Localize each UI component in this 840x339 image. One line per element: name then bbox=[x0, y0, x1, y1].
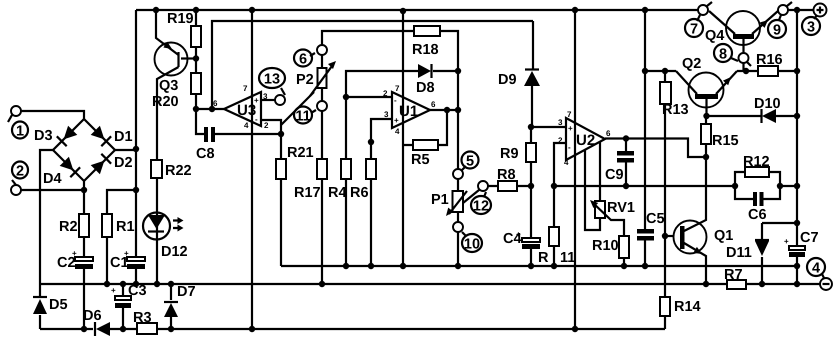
terminal 11 bbox=[317, 101, 327, 111]
wire: bottom negative bus y329 bbox=[40, 328, 665, 330]
svg-text:R19: R19 bbox=[167, 11, 194, 27]
wire: P1 bottom to common bus bbox=[457, 232, 459, 266]
wire: terminal2 to bridge bottom bbox=[21, 189, 84, 191]
resistor R5 bbox=[403, 110, 447, 145]
svg-text:R18: R18 bbox=[412, 42, 439, 58]
resistor R6 bbox=[370, 142, 372, 266]
svg-text:6: 6 bbox=[431, 100, 436, 109]
resistor R13 bbox=[664, 71, 666, 236]
wire: U3 output node bbox=[196, 108, 224, 110]
node: bridge + corner junction bbox=[133, 146, 139, 152]
svg-text:C8: C8 bbox=[196, 146, 215, 162]
svg-text:4: 4 bbox=[395, 127, 400, 136]
potentiometer P2 bbox=[321, 55, 323, 101]
svg-text:RV1: RV1 bbox=[607, 200, 635, 216]
resistor R4 bbox=[345, 97, 347, 266]
svg-text:4: 4 bbox=[244, 121, 249, 130]
wire: U3 pin2 feedback elbow bbox=[261, 120, 281, 134]
svg-text:+: + bbox=[568, 124, 573, 133]
svg-text:C6: C6 bbox=[748, 207, 767, 223]
terminal 10 bbox=[453, 222, 463, 232]
svg-text:R14: R14 bbox=[674, 299, 701, 315]
svg-text:3: 3 bbox=[558, 118, 563, 127]
op-amp U3 bbox=[224, 92, 261, 126]
svg-text:D12: D12 bbox=[161, 244, 188, 260]
svg-text:R20: R20 bbox=[152, 94, 179, 110]
resistor R2 bbox=[83, 190, 85, 257]
svg-text:3: 3 bbox=[807, 20, 815, 36]
terminal 7 bbox=[697, 9, 699, 11]
svg-text:2: 2 bbox=[16, 164, 24, 180]
svg-text:+: + bbox=[784, 237, 789, 246]
transistor Q1 bbox=[665, 235, 680, 237]
wire: U3 output up to y21 rail bbox=[212, 21, 533, 109]
svg-text:D1: D1 bbox=[114, 129, 133, 145]
svg-text:R7: R7 bbox=[724, 267, 743, 283]
wire: C8 feedback from output bbox=[196, 109, 204, 134]
wire: x403 supply vertical bbox=[402, 11, 404, 266]
wire: x575 supply to bottom bbox=[574, 10, 576, 329]
svg-text:-: - bbox=[568, 143, 571, 152]
diode D11 bbox=[762, 223, 797, 284]
svg-text:D9: D9 bbox=[498, 72, 517, 88]
transistor Q2 bbox=[689, 73, 724, 108]
resistor R22 bbox=[151, 160, 162, 178]
wire: x645 rail to C5 bbox=[644, 10, 646, 266]
wire: bridge - corner to 0V bus bbox=[40, 150, 53, 284]
resistor R10 bbox=[619, 236, 629, 258]
capacitor C9 bbox=[625, 139, 627, 187]
resistor R14 bbox=[664, 236, 666, 329]
svg-text:7: 7 bbox=[690, 22, 698, 38]
wire: feedback node to +rail bbox=[780, 185, 797, 187]
resistor R7 bbox=[727, 280, 746, 289]
capacitor C5 bbox=[637, 229, 654, 234]
svg-text:R: R bbox=[538, 250, 549, 266]
diode D8 bbox=[418, 64, 431, 78]
op-amp U2 bbox=[566, 118, 605, 160]
wire: emitter output to +terminal bbox=[788, 9, 815, 11]
trimmer RV1 bbox=[585, 142, 600, 230]
resistor R3 bbox=[137, 323, 157, 334]
wire: U3 pin7 supply bbox=[251, 10, 253, 329]
svg-text:+: + bbox=[254, 96, 259, 105]
svg-text:7: 7 bbox=[243, 84, 248, 93]
wire: U2 output to R15 bbox=[605, 139, 706, 158]
svg-text:6: 6 bbox=[213, 99, 218, 108]
terminal 3 + bbox=[814, 4, 827, 17]
wire: U1 pin2 node to D8 anode bbox=[346, 71, 418, 97]
resistor R20 bbox=[191, 73, 201, 94]
node: U3 inverting input bbox=[278, 131, 284, 137]
svg-text:D3: D3 bbox=[34, 128, 53, 144]
node: bridge bottom junction bbox=[81, 187, 87, 193]
svg-text:C9: C9 bbox=[605, 167, 624, 183]
svg-text:-: - bbox=[255, 115, 258, 124]
wire: top +V bus bbox=[136, 9, 698, 11]
svg-text:R10: R10 bbox=[592, 238, 619, 254]
svg-text:R17: R17 bbox=[294, 185, 321, 201]
svg-text:R4: R4 bbox=[328, 185, 347, 201]
svg-text:5: 5 bbox=[466, 154, 474, 170]
svg-text:R5: R5 bbox=[411, 152, 430, 168]
wire: U1 output bbox=[430, 109, 458, 111]
svg-text:R12: R12 bbox=[743, 154, 770, 170]
svg-text:C5: C5 bbox=[646, 211, 665, 227]
svg-text:12: 12 bbox=[473, 199, 489, 215]
resistor R15 bbox=[705, 116, 707, 157]
svg-text:+: + bbox=[394, 116, 399, 125]
node: Q2 base / D10 / R15 bbox=[703, 113, 709, 119]
svg-text:P1: P1 bbox=[431, 192, 449, 208]
wire: U2 feedback line y186 bbox=[554, 185, 735, 187]
svg-text:R16: R16 bbox=[756, 52, 783, 68]
diode D6 bbox=[94, 322, 96, 336]
svg-text:D10: D10 bbox=[754, 96, 781, 112]
terminal 5 bbox=[453, 169, 463, 179]
wire: regulated common bus y266 bbox=[281, 265, 798, 267]
terminal 12 bbox=[478, 181, 488, 191]
svg-text:Q2: Q2 bbox=[682, 56, 701, 72]
terminal 4 - bbox=[820, 278, 832, 290]
resistor R9 bbox=[530, 127, 532, 186]
resistor R19 bbox=[195, 10, 197, 73]
svg-text:R8: R8 bbox=[497, 167, 516, 183]
svg-text:Q1: Q1 bbox=[714, 228, 733, 244]
potentiometer P1 bbox=[457, 179, 459, 222]
bridge rectifier frame bbox=[53, 119, 115, 190]
svg-text:7: 7 bbox=[395, 84, 400, 93]
wire: output down to P1 bbox=[457, 110, 459, 169]
svg-text:-: - bbox=[394, 96, 397, 105]
svg-text:11: 11 bbox=[560, 250, 575, 266]
svg-text:9: 9 bbox=[773, 23, 781, 39]
svg-text:+: + bbox=[111, 286, 116, 295]
svg-text:C4: C4 bbox=[503, 231, 522, 247]
svg-text:2: 2 bbox=[383, 89, 388, 98]
resistor R8 bbox=[488, 185, 531, 187]
svg-text:2: 2 bbox=[264, 121, 269, 130]
terminal 6 bbox=[317, 45, 327, 55]
wire: U3 pin3 to link 13 bbox=[261, 99, 275, 101]
diode D4 bbox=[60, 157, 74, 171]
svg-text:D7: D7 bbox=[177, 284, 196, 300]
resistor R1 bbox=[107, 190, 136, 284]
svg-text:10: 10 bbox=[464, 237, 480, 253]
svg-text:1: 1 bbox=[16, 124, 24, 140]
diode D1 bbox=[91, 126, 105, 140]
svg-text:Q4: Q4 bbox=[705, 28, 724, 44]
diode D2 bbox=[91, 161, 105, 175]
svg-text:3: 3 bbox=[384, 110, 389, 119]
svg-text:4: 4 bbox=[564, 158, 569, 167]
svg-text:Q3: Q3 bbox=[159, 78, 178, 94]
svg-text:C3: C3 bbox=[128, 283, 147, 299]
svg-text:R15: R15 bbox=[712, 133, 739, 149]
capacitor C6 bbox=[735, 186, 780, 199]
wire: +output rail x797 bbox=[796, 10, 798, 284]
resistor R21 bbox=[280, 134, 282, 266]
svg-text:11: 11 bbox=[295, 109, 310, 125]
LED D12 bbox=[156, 178, 158, 284]
capacitor C4 bbox=[530, 186, 532, 266]
resistor R18 bbox=[414, 26, 440, 36]
svg-text:P2: P2 bbox=[296, 72, 314, 88]
wire: bridge + corner to rail bbox=[115, 149, 136, 151]
svg-text:C1: C1 bbox=[110, 255, 129, 271]
svg-text:D5: D5 bbox=[49, 297, 68, 313]
svg-text:D4: D4 bbox=[43, 171, 62, 187]
capacitor C3 bbox=[122, 284, 124, 329]
node: Q3 base divider junction bbox=[193, 55, 199, 61]
svg-text:D8: D8 bbox=[416, 80, 435, 96]
wire: y71 rail bbox=[645, 70, 758, 72]
svg-text:D2: D2 bbox=[114, 155, 133, 171]
svg-text:6: 6 bbox=[606, 129, 611, 138]
wire: raw + rail vertical x136 bbox=[135, 10, 137, 284]
op-amp U1 bbox=[392, 92, 430, 128]
wire: U2 pin2 elbow bbox=[554, 143, 566, 186]
node: R1 branch junction bbox=[133, 187, 139, 193]
resistor R17 bbox=[321, 111, 323, 284]
svg-text:6: 6 bbox=[299, 52, 307, 68]
wire: 0V bus y284 bbox=[40, 283, 821, 285]
transistor Q3 bbox=[155, 43, 188, 76]
wire: terminal1 to bridge top bbox=[21, 111, 84, 119]
svg-text:R2: R2 bbox=[59, 219, 78, 235]
diode D5 bbox=[39, 284, 41, 329]
diode D10 bbox=[706, 115, 797, 117]
svg-text:R22: R22 bbox=[165, 163, 192, 179]
svg-text:C2: C2 bbox=[57, 255, 76, 271]
svg-text:U1: U1 bbox=[399, 103, 418, 120]
svg-text:R9: R9 bbox=[500, 146, 519, 162]
resistor R11 bbox=[553, 186, 555, 266]
wire: U1 pin3 to R6 bbox=[371, 119, 392, 142]
svg-text:D6: D6 bbox=[83, 308, 102, 324]
svg-text:7: 7 bbox=[567, 110, 572, 119]
svg-text:C7: C7 bbox=[800, 230, 819, 246]
svg-text:U2: U2 bbox=[576, 132, 595, 149]
resistor R16 bbox=[758, 66, 778, 76]
wire: R18 left lead from link6 bbox=[322, 31, 414, 45]
diode D3 bbox=[64, 126, 78, 140]
terminal 13 bbox=[275, 95, 285, 105]
svg-text:R21: R21 bbox=[287, 145, 314, 161]
terminal 9 bbox=[778, 5, 788, 15]
wire: P1 wiper to link 12 bbox=[463, 190, 479, 203]
svg-text:R3: R3 bbox=[133, 310, 152, 326]
svg-text:4: 4 bbox=[812, 261, 820, 277]
svg-text:8: 8 bbox=[719, 47, 727, 63]
wire: U2 +input from D9/R9 node bbox=[531, 126, 566, 128]
resistor R12 bbox=[735, 172, 780, 186]
diode D7 bbox=[170, 284, 172, 329]
svg-text:13: 13 bbox=[264, 72, 280, 88]
terminal 8 bbox=[739, 53, 749, 63]
svg-text:R1: R1 bbox=[116, 219, 135, 235]
terminal 1 bbox=[11, 106, 21, 116]
capacitor C8 bbox=[204, 127, 208, 142]
svg-text:R6: R6 bbox=[350, 185, 369, 201]
svg-text:R13: R13 bbox=[662, 102, 689, 118]
wire: P2 wiper to U3 pin2 node bbox=[281, 92, 314, 125]
transistor Q4 bbox=[726, 11, 760, 45]
svg-text:D11: D11 bbox=[726, 245, 752, 261]
terminal 2 bbox=[12, 162, 28, 179]
diode D9 bbox=[532, 21, 533, 127]
